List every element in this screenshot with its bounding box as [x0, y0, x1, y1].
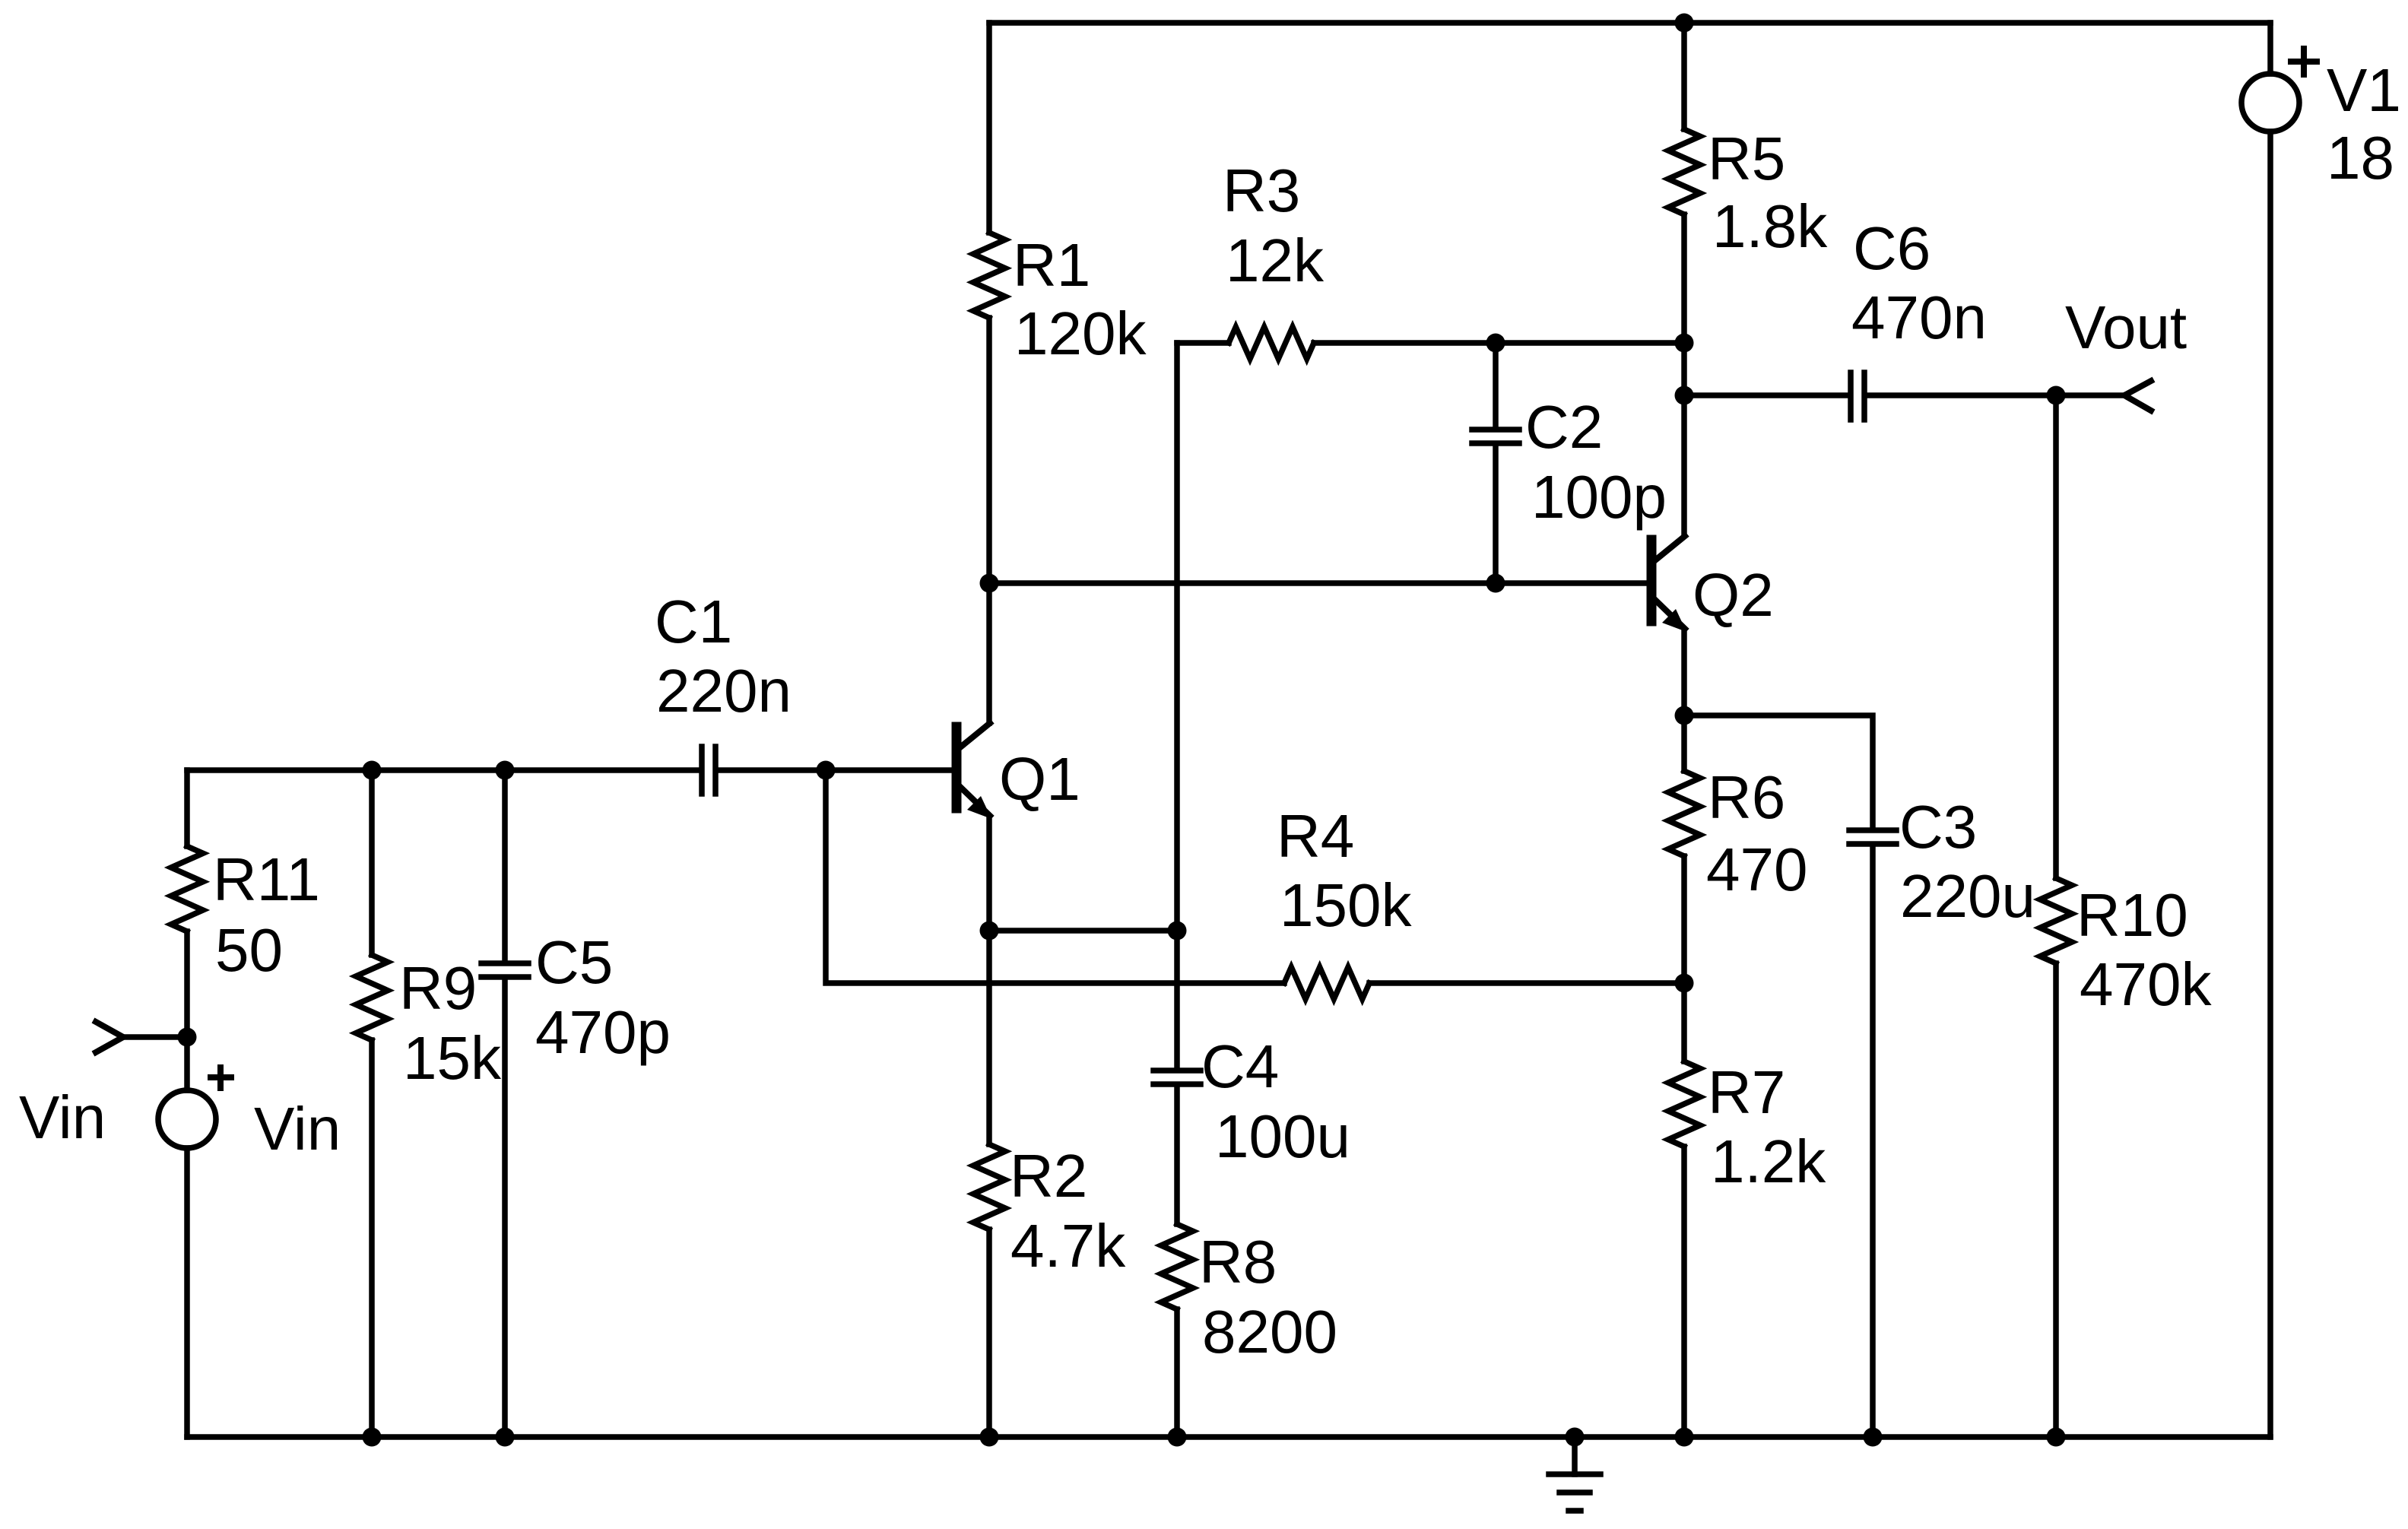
- resistor R1: [973, 233, 1005, 318]
- resistor R6: [1668, 771, 1700, 856]
- wire R3 left lead from node: [1177, 340, 1229, 346]
- resistor R4: [1284, 967, 1369, 999]
- svg-text:C3: C3: [1899, 793, 1977, 861]
- capacitor C5: [481, 963, 528, 977]
- svg-text:C4: C4: [1201, 1033, 1279, 1100]
- wire R4 right to Q2 emitter node: [1369, 980, 1684, 986]
- capacitor C3: [1849, 830, 1896, 844]
- wire top supply bus: [989, 20, 2270, 26]
- svg-text:1.2k: 1.2k: [1711, 1128, 1826, 1195]
- svg-text:R2: R2: [1010, 1142, 1087, 1210]
- node input port / Vin: [178, 1028, 197, 1047]
- svg-text:470n: 470n: [1851, 284, 1987, 351]
- svg-text:R5: R5: [1708, 125, 1785, 192]
- svg-text:4.7k: 4.7k: [1010, 1212, 1126, 1280]
- node top bus / R5: [1675, 14, 1694, 33]
- resistor R11: [171, 846, 203, 931]
- svg-text:R4: R4: [1277, 802, 1354, 870]
- svg-text:12k: 12k: [1226, 227, 1325, 294]
- svg-text:100u: 100u: [1215, 1102, 1350, 1170]
- svg-text:15k: 15k: [403, 1024, 502, 1092]
- node Q1 emitter tie left: [980, 922, 999, 941]
- wire V1 bottom lead to ground bus: [2267, 132, 2273, 1437]
- wire C5 top lead: [502, 770, 508, 960]
- wire R3 right to R5 branch: [1314, 340, 1684, 346]
- transistor Q1: [957, 723, 991, 819]
- node ground tap: [1566, 1428, 1585, 1447]
- svg-text:Vout: Vout: [2065, 293, 2187, 361]
- svg-text:R6: R6: [1708, 763, 1785, 831]
- wire Vin branch top lead: [184, 770, 190, 846]
- svg-text:C6: C6: [1853, 214, 1931, 282]
- wire C5 bottom lead: [502, 980, 508, 1437]
- node R9 bottom: [363, 1428, 382, 1447]
- node R2 bottom: [980, 1428, 999, 1447]
- svg-text:Vin: Vin: [254, 1095, 341, 1163]
- node Q1 base / C1: [817, 761, 836, 780]
- wire C3 bottom lead: [1870, 847, 1876, 1437]
- Vin plus sign: [211, 1067, 231, 1088]
- wire C1 right to Q1 base: [719, 767, 952, 773]
- wire R9 bottom lead: [369, 1040, 375, 1437]
- svg-text:R9: R9: [399, 954, 477, 1022]
- node R6 / R7 / R4: [1675, 974, 1694, 993]
- wire R11 bottom to Vin source: [184, 931, 190, 1090]
- node C3 bottom: [1864, 1428, 1883, 1447]
- wire input port to Vin branch: [123, 1034, 187, 1040]
- node Q1 emitter tie right: [1168, 922, 1187, 941]
- wire Q1 emitter to R2: [986, 817, 992, 1144]
- Vout port arrow: [2124, 381, 2151, 411]
- wire R1 bottom to Q1 collector: [986, 318, 992, 723]
- capacitor C2: [1472, 430, 1519, 443]
- svg-text:220n: 220n: [656, 657, 792, 725]
- ground symbol: [1549, 1437, 1601, 1511]
- wire R7 bottom lead: [1681, 1147, 1687, 1437]
- svg-text:C1: C1: [655, 588, 732, 655]
- svg-text:100p: 100p: [1531, 463, 1667, 531]
- node Vout: [2047, 386, 2066, 405]
- transistor Q2: [1651, 536, 1686, 632]
- svg-text:R8: R8: [1199, 1228, 1277, 1296]
- svg-text:120k: 120k: [1014, 300, 1147, 367]
- wire Q2 collector to C6: [1684, 392, 1848, 398]
- node R3 / R5 branch: [1675, 334, 1694, 353]
- wire Vout node down to R10: [2053, 395, 2059, 878]
- node C5 bottom: [496, 1428, 515, 1447]
- wire R8 bottom lead: [1174, 1309, 1180, 1437]
- wire R5 bottom / Q2 collector branch: [1681, 214, 1687, 535]
- svg-text:470: 470: [1706, 836, 1807, 903]
- node C2 bottom / base wire: [1486, 574, 1505, 593]
- wire R1 top lead: [986, 23, 992, 233]
- node R3 / C2 top: [1486, 334, 1505, 353]
- wire input node bus: [187, 767, 699, 773]
- svg-text:150k: 150k: [1280, 871, 1412, 939]
- resistor R2: [973, 1144, 1005, 1229]
- wire bottom ground bus: [187, 1434, 2270, 1440]
- node C5 top: [496, 761, 515, 780]
- wire Vin source bottom lead: [184, 1148, 190, 1437]
- svg-text:R11: R11: [213, 845, 320, 913]
- wire Q2 emitter node to C3: [1684, 715, 1873, 827]
- svg-text:470p: 470p: [535, 998, 671, 1066]
- V1 plus sign: [2291, 49, 2317, 75]
- node Q2 emitter / C3 wire: [1675, 706, 1694, 725]
- svg-text:50: 50: [215, 916, 283, 984]
- node Q1 collector / R1: [980, 574, 999, 593]
- svg-text:V1: V1: [2327, 56, 2401, 124]
- wire R2 bottom lead: [986, 1229, 992, 1437]
- wire C6 right to Vout node: [1867, 392, 2124, 398]
- wire Q1 collector node to Q2 base: [989, 580, 1647, 586]
- input port arrow: [96, 1022, 123, 1052]
- wire R6 bottom to R7 top: [1681, 856, 1687, 1061]
- wire R9 top lead: [369, 770, 375, 955]
- node R9 top: [363, 761, 382, 780]
- svg-text:Q2: Q2: [1693, 561, 1774, 629]
- svg-text:220u: 220u: [1900, 862, 2035, 930]
- wire Q1 emitter tie to riser: [989, 928, 1177, 934]
- svg-text:C5: C5: [535, 928, 613, 996]
- resistor R3: [1229, 327, 1314, 359]
- node R10 bottom: [2047, 1428, 2066, 1447]
- wire C2 bottom lead: [1493, 446, 1499, 583]
- resistor R10: [2040, 878, 2072, 963]
- wire Q1 emitter / R3 riser: [1174, 343, 1180, 1067]
- resistor R7: [1668, 1061, 1700, 1147]
- svg-text:18: 18: [2327, 124, 2394, 192]
- node Q2 collector / C6: [1675, 386, 1694, 405]
- voltage source Vin circle: [158, 1090, 216, 1148]
- capacitor C6: [1851, 373, 1864, 420]
- node R8 bottom: [1168, 1428, 1187, 1447]
- wire Q2 emitter down to R6: [1681, 632, 1687, 771]
- wire C4 bottom lead: [1174, 1087, 1180, 1224]
- svg-text:Vin: Vin: [19, 1083, 106, 1151]
- svg-text:C2: C2: [1525, 393, 1603, 461]
- svg-text:470k: 470k: [2080, 950, 2212, 1018]
- wire V1 top lead: [2267, 23, 2273, 74]
- wire R5 top lead: [1681, 23, 1687, 129]
- node R7 bottom: [1675, 1428, 1694, 1447]
- capacitor C1: [702, 747, 715, 794]
- svg-text:R7: R7: [1708, 1058, 1785, 1126]
- resistor R5: [1668, 129, 1700, 214]
- resistor R9: [356, 955, 388, 1040]
- svg-text:R10: R10: [2076, 881, 2188, 949]
- svg-text:R3: R3: [1223, 157, 1300, 224]
- svg-text:R1: R1: [1013, 231, 1090, 299]
- wire R10 bottom lead: [2053, 963, 2059, 1437]
- wire Q1 base feedback drop: [826, 770, 1284, 983]
- voltage source V1 circle: [2241, 74, 2299, 132]
- svg-text:8200: 8200: [1202, 1298, 1337, 1366]
- resistor R8: [1161, 1224, 1193, 1309]
- svg-text:1.8k: 1.8k: [1712, 192, 1828, 260]
- wire C2 top lead: [1493, 343, 1499, 427]
- capacitor C4: [1153, 1071, 1201, 1084]
- svg-text:Q1: Q1: [999, 745, 1080, 813]
